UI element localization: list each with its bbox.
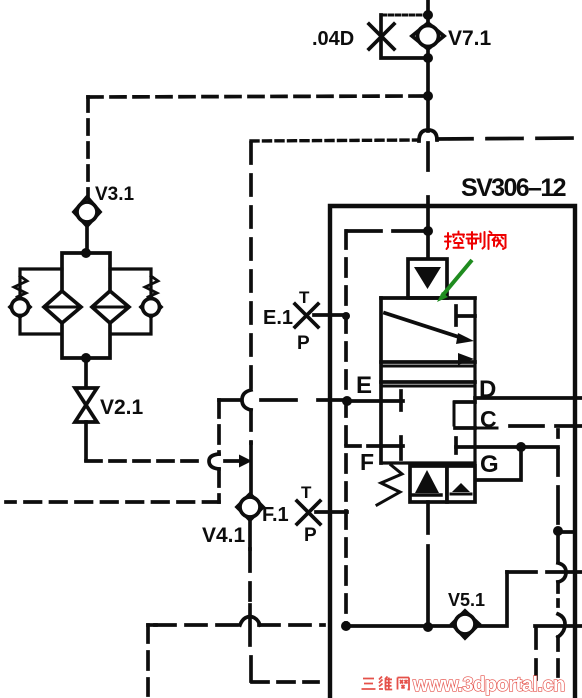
svg-text:www.3dportal.cn: www.3dportal.cn — [412, 674, 565, 696]
pin G tick — [454, 438, 458, 453]
svg-text:D: D — [479, 376, 496, 403]
shutoff valve V2.1 — [75, 388, 97, 422]
wire filter to V2.1 — [84, 358, 88, 389]
watermark — [362, 677, 410, 690]
node pilot frame junction — [423, 226, 433, 236]
port C chamber — [454, 402, 497, 428]
wire inner pilot dashed horizontal y231 — [347, 229, 424, 233]
svg-text:T: T — [299, 288, 310, 307]
valve body U1 — [381, 298, 475, 463]
wire port G — [456, 445, 558, 449]
svg-text:P: P — [304, 525, 317, 546]
wire port C dashed — [510, 424, 582, 428]
wire inner pilot dashed vertical x346 — [344, 231, 348, 626]
node filter bottom — [81, 353, 91, 363]
wire V4.1 branch horizontal dotted y140 — [251, 140, 419, 141]
wire hop x219 over y461 — [209, 454, 219, 469]
check valve V5.1 — [452, 611, 479, 638]
svg-text:V7.1: V7.1 — [448, 27, 492, 50]
small arrow up — [451, 483, 471, 494]
svg-text:.04D: .04D — [312, 28, 354, 50]
solenoid box bottom right — [447, 466, 475, 502]
wire tank dashed x558 — [556, 430, 560, 676]
wire G hook — [476, 447, 521, 480]
svg-text:V4.1: V4.1 — [202, 524, 246, 547]
spring of valve — [377, 465, 402, 505]
wire below solenoid — [426, 502, 430, 533]
clogging indicator left spring — [14, 276, 27, 297]
test point F.1 — [297, 501, 347, 524]
wire V4.1 down dashed — [250, 549, 251, 681]
svg-text:F: F — [360, 449, 374, 475]
node E pilot junction — [342, 396, 352, 406]
test point E.1 — [295, 304, 347, 327]
wire filter inner rect — [62, 253, 110, 358]
wire pilot dashed left vertical — [86, 97, 90, 199]
wire pilot dashed top horizontal — [88, 96, 423, 97]
node bottom of bypass — [423, 53, 433, 63]
wire filter outer right branch — [110, 269, 151, 334]
svg-text:G: G — [480, 451, 499, 478]
svg-text:P: P — [297, 333, 310, 354]
check valve V7.1 — [412, 23, 444, 49]
wire hop y140 over P line — [419, 130, 437, 141]
clogging indicator right spring — [145, 276, 158, 297]
clogging indicator left — [10, 297, 30, 317]
wire bottom return line dashed left — [155, 623, 324, 627]
wire port F dashed — [346, 444, 381, 448]
pin T stub upper right — [456, 306, 475, 325]
wire V4.1 branch vertical dashed — [249, 143, 253, 443]
wire E pilot dashed y400 — [219, 398, 344, 402]
node x558 stub — [553, 526, 563, 536]
node top of bypass — [423, 10, 433, 20]
wire P down to hop — [426, 96, 430, 131]
wire bottom-left long dashed — [6, 500, 219, 504]
wire through V7.1 — [426, 15, 430, 58]
svg-text:F.1: F.1 — [262, 504, 289, 526]
check valve V4.1 — [237, 494, 263, 520]
wire P down — [426, 58, 430, 96]
arrow right small — [458, 353, 474, 365]
wire V2.1 down — [84, 422, 88, 460]
svg-text:V5.1: V5.1 — [448, 590, 485, 610]
svg-text:SV306–12: SV306–12 — [461, 174, 566, 202]
spool diagonal arrow — [385, 313, 474, 344]
section divider 1 — [381, 362, 475, 366]
pilot solenoid box top — [408, 259, 447, 298]
svg-text:T: T — [301, 483, 312, 502]
wire V2.1 dashed to arrow — [86, 459, 240, 463]
wire bypass branch — [381, 14, 428, 17]
wire P supply top — [426, 0, 430, 15]
wire branch y626 right — [535, 624, 582, 628]
solenoid arrow up — [413, 470, 441, 495]
wire jog x558 over y572 — [558, 563, 566, 582]
node filter top — [81, 248, 91, 258]
node pilot tap — [423, 91, 433, 101]
wire stub to frame — [558, 530, 575, 534]
clogging indicator right — [141, 297, 161, 317]
pilot arrow down — [414, 267, 441, 289]
wire V4.1 down — [248, 520, 252, 549]
wire below solenoid dashed — [426, 546, 430, 622]
label control valve (red) — [445, 232, 506, 250]
wire bottom dashed to frame — [252, 680, 318, 684]
wire V5.1 right and up — [478, 572, 507, 626]
svg-text:V3.1: V3.1 — [95, 184, 135, 205]
pin F tick — [399, 437, 403, 459]
svg-text:V2.1: V2.1 — [100, 396, 144, 419]
wire F inside valve — [381, 444, 403, 448]
wire into V4.1 — [249, 443, 253, 497]
wire port D — [475, 396, 582, 400]
svg-text:C: C — [480, 406, 497, 432]
svg-text:E.1: E.1 — [263, 307, 293, 329]
green pointer arrow — [437, 260, 472, 302]
wire x536 vertical dashed — [534, 629, 538, 680]
wire hop x251 over y400 — [242, 390, 251, 410]
wire hump y625 over x250 — [240, 617, 260, 626]
wire y572 to frame — [507, 570, 582, 574]
node bottom junction — [423, 622, 433, 632]
wire bottom corner left — [148, 623, 156, 627]
wire bottom left vertical dashed — [146, 625, 150, 695]
wire return solid to V5.1 — [346, 624, 453, 628]
filter element right — [92, 291, 129, 323]
wire y139 long dashes right — [437, 138, 582, 139]
wire filter outer left branch — [20, 269, 62, 334]
check valve V3.1 — [74, 197, 100, 253]
wire P dashed to frame — [426, 143, 430, 259]
node bottom line junction — [341, 621, 351, 631]
wire E into valve — [347, 399, 403, 403]
section divider 2 — [381, 382, 475, 386]
pin E tick — [399, 391, 403, 410]
arrow into V4.1 line — [239, 455, 252, 468]
node E.1 junction — [342, 312, 350, 320]
wire branch x219 vertical — [217, 400, 221, 502]
frame SV306-12 block — [330, 206, 575, 698]
filter element left — [44, 291, 81, 323]
orifice .04D — [369, 24, 394, 49]
node G branch — [516, 442, 526, 452]
wire jog x558 over y626 — [558, 614, 565, 637]
svg-text:E: E — [356, 372, 372, 399]
solenoid box bottom left — [410, 466, 447, 502]
